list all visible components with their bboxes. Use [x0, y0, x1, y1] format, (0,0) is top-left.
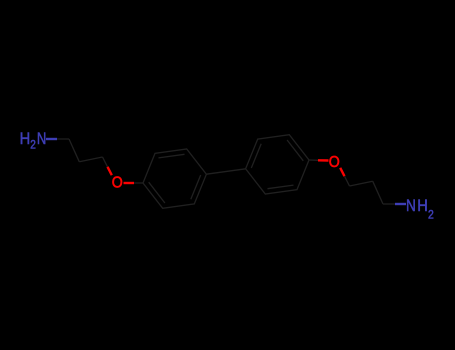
bond C3'-N2 (carbon half) [383, 203, 395, 205]
svg-text:2: 2 [30, 138, 36, 152]
svg-text:O: O [329, 154, 340, 171]
bond N1-C1 (carbon half) [57, 138, 69, 140]
ring2 inner double bond a [268, 185, 294, 189]
svg-text:N: N [406, 196, 416, 215]
bond N1-C1 (blue half near N) [46, 138, 57, 140]
bond O2-C1' (carbon half) [345, 176, 350, 186]
bond ring2-O2 (carbon half) [309, 159, 318, 161]
bond C3'-N2 (blue half near N) [395, 203, 406, 205]
bond O2-C1' (red half near O) [340, 168, 344, 176]
bond O1-ring1 (red half near O) [124, 182, 135, 184]
bond C2'-C3' [373, 181, 383, 204]
ring1 inner double bond a [159, 154, 185, 158]
ring2 inner double bond c [287, 140, 303, 161]
bond C2-C3 [79, 157, 102, 162]
bond ring1-ring2 (biphenyl single bond) [206, 169, 245, 174]
bond C1'-C2' [350, 181, 373, 186]
ring1 inner double bond c [149, 182, 165, 203]
bond O1-ring1 (carbon half) [134, 182, 143, 184]
bond C3-O1 (carbon half) [103, 157, 108, 167]
atom label N1 (H2N, left amine) [20, 129, 47, 152]
ring1 inner double bond b [191, 175, 201, 199]
ring2 inner double bond b [251, 144, 261, 168]
bond C1-C2 [69, 139, 79, 162]
svg-text:H: H [20, 129, 31, 148]
benzene ring 2 (right ring of biphenyl) [246, 135, 309, 194]
svg-text:N: N [37, 129, 46, 148]
svg-text:O: O [112, 175, 123, 192]
bond C3-O1 (red half near O) [108, 167, 112, 175]
atom label N2 (NH2, right amine) [406, 196, 434, 222]
svg-text:H: H [417, 196, 428, 215]
bond ring2-O2 (red half near O) [318, 159, 329, 162]
svg-text:2: 2 [428, 208, 434, 222]
benzene ring 1 (left ring of biphenyl) [143, 149, 206, 208]
